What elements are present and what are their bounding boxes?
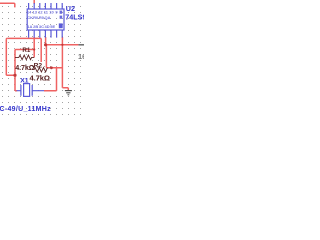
svg-text:14: 14 xyxy=(27,10,32,15)
svg-text:4.7kΩ: 4.7kΩ xyxy=(15,63,35,72)
svg-text:R1: R1 xyxy=(22,47,30,54)
svg-text:13: 13 xyxy=(33,10,38,15)
svg-text:5E: 5E xyxy=(50,24,55,29)
svg-text:3C: 3C xyxy=(39,24,44,29)
svg-text:4D: 4D xyxy=(45,24,50,29)
svg-text:4.7kΩ: 4.7kΩ xyxy=(30,73,50,82)
svg-text:10: 10 xyxy=(49,10,54,15)
svg-text:1A: 1A xyxy=(27,24,32,29)
svg-text:QA: QA xyxy=(45,15,51,20)
svg-text:16: 16 xyxy=(78,52,84,61)
svg-text:2B: 2B xyxy=(33,24,38,29)
svg-text:C-49/U_11MHz: C-49/U_11MHz xyxy=(0,106,51,113)
svg-text:12: 12 xyxy=(38,10,43,15)
svg-text:74LS93: 74LS93 xyxy=(65,12,84,21)
